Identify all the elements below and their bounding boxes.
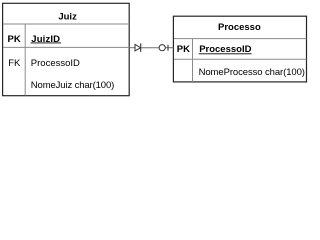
Juiz PK row bottom line: [3, 46, 129, 48]
many-end arrow (hollow triangle) at Juiz: [135, 44, 141, 51]
svg-text:PK: PK: [8, 34, 21, 45]
svg-text:NomeProcesso char(100): NomeProcesso char(100): [199, 67, 305, 78]
svg-text:PK: PK: [177, 44, 190, 55]
Processo key-column separator: [192, 39, 194, 82]
zero-circle at Processo end: [159, 45, 165, 51]
ProcessoID underline: [199, 53, 252, 55]
wire: segment circle to Processo: [165, 47, 173, 49]
svg-text:Processo: Processo: [218, 22, 261, 33]
svg-text:FK: FK: [8, 58, 21, 69]
entity Processo (table frame): [173, 16, 306, 82]
svg-text:NomeJuiz char(100): NomeJuiz char(100): [31, 80, 114, 91]
entity Juiz (table frame): [3, 3, 130, 95]
wire: relationship line middle segment: [141, 47, 159, 49]
svg-text:Juiz: Juiz: [58, 12, 77, 23]
one-tick at Processo end: [167, 45, 169, 51]
svg-text:ProcessoID: ProcessoID: [31, 58, 80, 69]
wire: relationship line Juiz side: [130, 47, 135, 49]
Processo PK row bottom line: [174, 58, 307, 60]
Juiz header separator line: [3, 23, 129, 25]
one-bar at Juiz end: [140, 43, 142, 52]
Juiz key-column separator: [24, 24, 26, 96]
JuizID underline: [31, 42, 61, 44]
Processo header separator line: [174, 38, 307, 40]
